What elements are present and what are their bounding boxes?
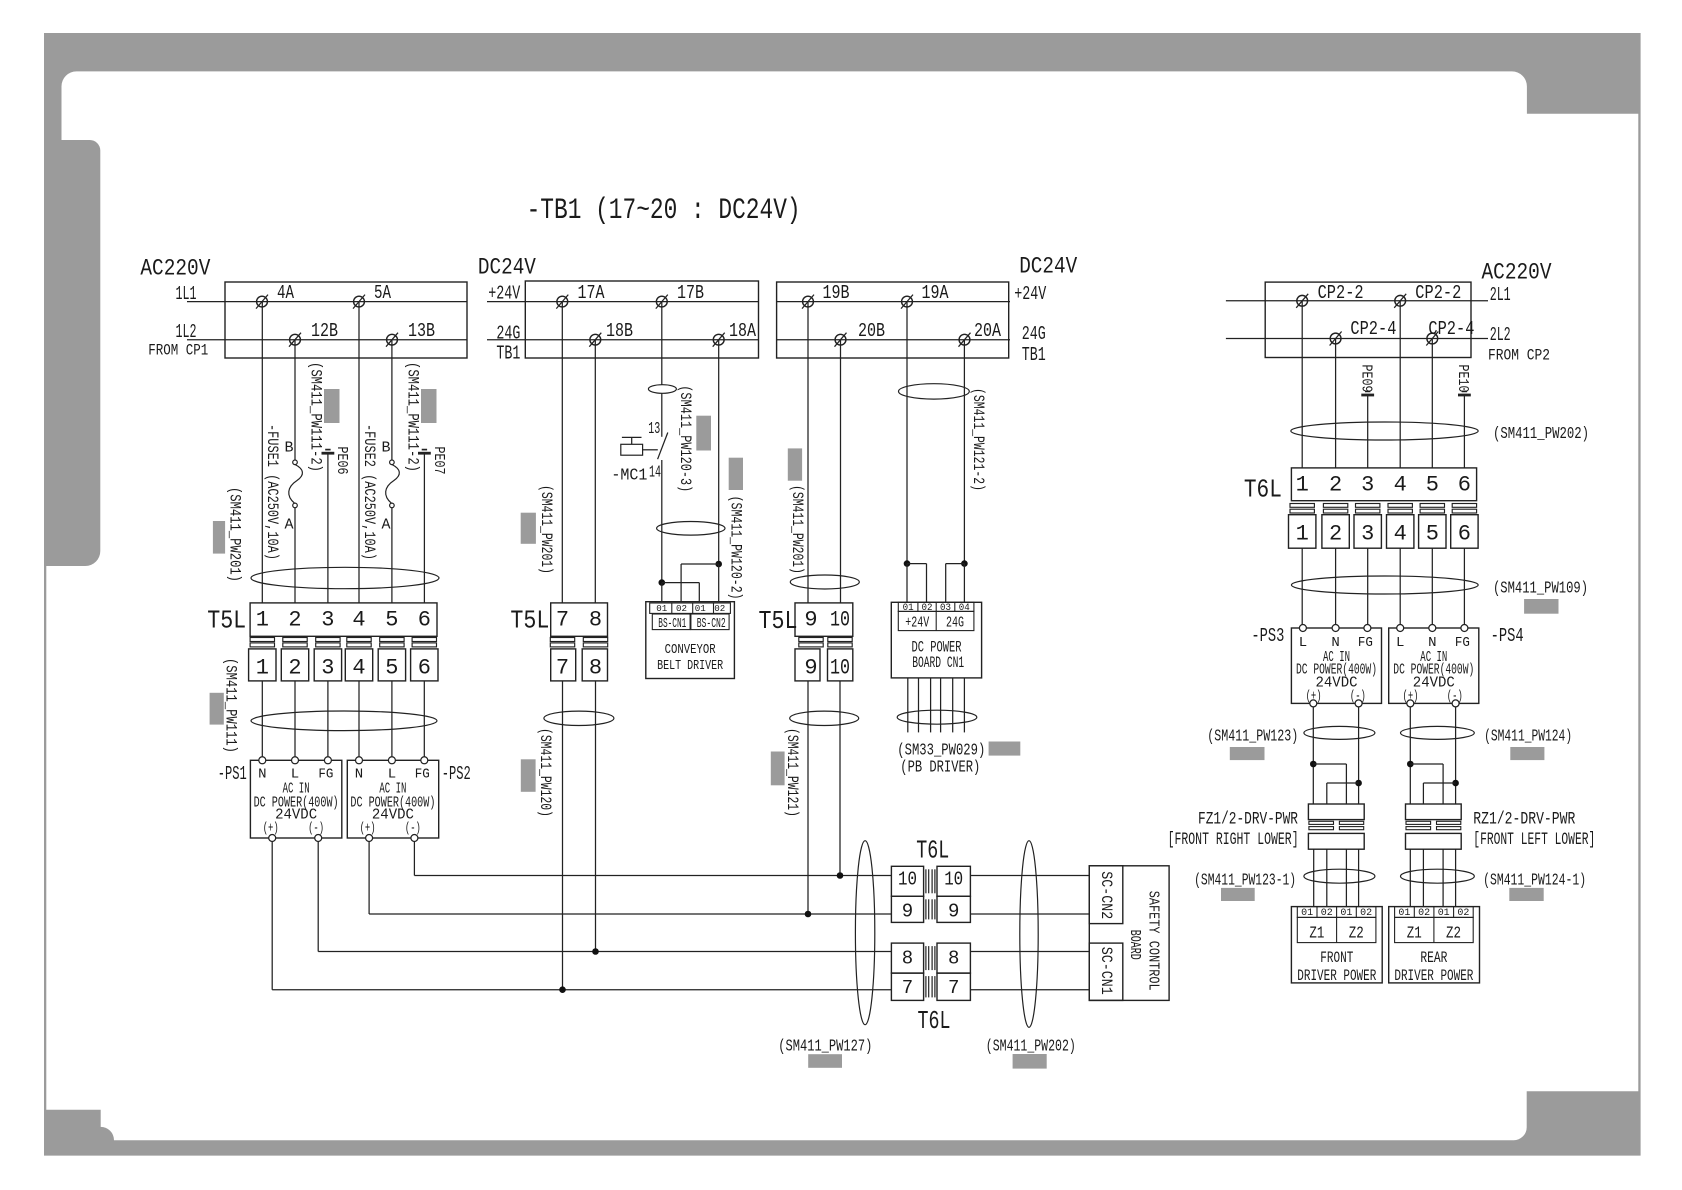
svg-text:CP2-2: CP2-2 [1318, 282, 1364, 304]
svg-text:01: 01 [695, 603, 706, 614]
svg-text:24G: 24G [946, 615, 964, 632]
svg-text:B: B [381, 440, 390, 457]
svg-text:BELT DRIVER: BELT DRIVER [657, 658, 723, 674]
svg-text:Z1: Z1 [1309, 925, 1324, 944]
svg-text:9: 9 [948, 901, 959, 923]
svg-text:14: 14 [649, 464, 661, 483]
svg-text:13: 13 [648, 420, 660, 439]
svg-text:T6L: T6L [918, 1006, 951, 1036]
svg-text:5: 5 [385, 656, 398, 681]
svg-text:L: L [1299, 635, 1307, 651]
svg-text:17A: 17A [578, 282, 605, 304]
svg-text:AC220V: AC220V [1482, 260, 1552, 286]
svg-text:4: 4 [352, 608, 365, 633]
svg-text:2: 2 [1329, 522, 1342, 547]
svg-text:DC24V: DC24V [1019, 254, 1077, 280]
svg-text:-PS1: -PS1 [218, 763, 247, 785]
svg-text:01: 01 [903, 603, 914, 614]
svg-text:PE07: PE07 [430, 447, 447, 475]
svg-text:N: N [258, 767, 266, 783]
svg-text:(SM411_PW109): (SM411_PW109) [1493, 580, 1588, 599]
svg-text:+24V: +24V [488, 283, 520, 305]
svg-text:PE10: PE10 [1454, 365, 1471, 393]
svg-text:3: 3 [321, 608, 334, 633]
svg-text:CP2-4: CP2-4 [1428, 318, 1474, 340]
svg-text:6: 6 [418, 656, 431, 681]
svg-text:5A: 5A [374, 282, 391, 304]
svg-text:-PS4: -PS4 [1491, 625, 1524, 647]
svg-text:4A: 4A [277, 282, 294, 304]
svg-text:CONVEYOR: CONVEYOR [665, 642, 716, 658]
svg-text:(SM411_PW120-3): (SM411_PW120-3) [676, 385, 694, 492]
svg-text:8: 8 [589, 656, 602, 681]
svg-text:8: 8 [902, 948, 913, 970]
svg-text:(SM411_PW201): (SM411_PW201) [788, 485, 806, 574]
svg-text:24G: 24G [1022, 323, 1046, 345]
svg-text:(SM411_PW111): (SM411_PW111) [222, 658, 240, 753]
svg-text:Z2: Z2 [1446, 925, 1461, 944]
svg-text:9: 9 [804, 656, 817, 681]
svg-text:(PB DRIVER): (PB DRIVER) [900, 759, 980, 778]
svg-text:FROM CP1: FROM CP1 [148, 342, 208, 360]
svg-text:BS-CN1: BS-CN1 [658, 616, 686, 632]
svg-text:N: N [355, 767, 363, 783]
svg-text:1: 1 [1296, 522, 1309, 547]
svg-text:T5L: T5L [207, 606, 246, 636]
svg-text:PE06: PE06 [333, 447, 350, 475]
svg-text:17B: 17B [677, 282, 704, 304]
svg-text:(SM411_PW111-2): (SM411_PW111-2) [404, 362, 422, 472]
svg-text:10: 10 [944, 869, 963, 891]
svg-text:SC-CN2: SC-CN2 [1097, 871, 1115, 919]
svg-text:1L1: 1L1 [176, 283, 197, 305]
svg-text:Z1: Z1 [1407, 925, 1422, 944]
svg-text:02: 02 [922, 603, 933, 614]
svg-text:6: 6 [1458, 522, 1471, 547]
svg-text:(-): (-) [308, 821, 324, 837]
svg-text:3: 3 [1361, 522, 1374, 547]
svg-text:04: 04 [959, 603, 970, 614]
svg-text:FROM CP2: FROM CP2 [1488, 347, 1550, 365]
svg-text:AC220V: AC220V [140, 256, 210, 282]
svg-text:BOARD CN1: BOARD CN1 [912, 654, 964, 672]
svg-text:10: 10 [830, 608, 850, 633]
svg-text:(SM411_PW124): (SM411_PW124) [1484, 728, 1572, 747]
svg-text:-PS2: -PS2 [442, 763, 471, 785]
svg-text:7: 7 [556, 656, 569, 681]
svg-text:A: A [381, 517, 390, 534]
svg-text:9: 9 [902, 901, 913, 923]
svg-text:(-): (-) [405, 821, 421, 837]
svg-text:BOARD: BOARD [1126, 930, 1143, 960]
svg-text:20B: 20B [858, 320, 885, 342]
svg-text:[FRONT LEFT LOWER]: [FRONT LEFT LOWER] [1473, 830, 1595, 850]
svg-text:(SM411_PW121-2): (SM411_PW121-2) [969, 388, 987, 491]
svg-text:-FUSE2 (AC250V,10A): -FUSE2 (AC250V,10A) [360, 424, 378, 560]
svg-text:FG: FG [318, 767, 333, 783]
svg-text:2L2: 2L2 [1490, 324, 1511, 346]
svg-text:5: 5 [1426, 473, 1439, 498]
svg-text:(SM411_PW120): (SM411_PW120) [536, 728, 554, 817]
svg-text:Z2: Z2 [1349, 925, 1364, 944]
svg-text:7: 7 [948, 977, 959, 999]
svg-text:A: A [284, 517, 293, 534]
svg-text:03: 03 [940, 603, 951, 614]
svg-text:CP2-4: CP2-4 [1350, 318, 1396, 340]
svg-text:FG: FG [1358, 635, 1373, 651]
svg-text:DRIVER POWER: DRIVER POWER [1297, 967, 1376, 985]
svg-text:8: 8 [948, 948, 959, 970]
svg-text:10: 10 [898, 869, 917, 891]
svg-text:-TB1 (17~20 : DC24V): -TB1 (17~20 : DC24V) [527, 194, 801, 228]
svg-text:20A: 20A [974, 320, 1001, 342]
svg-text:(+): (+) [360, 821, 376, 837]
svg-text:FZ1/2-DRV-PWR: FZ1/2-DRV-PWR [1198, 810, 1298, 830]
svg-text:(SM411_PW111-2): (SM411_PW111-2) [307, 362, 325, 472]
svg-text:1: 1 [1296, 473, 1309, 498]
svg-text:19B: 19B [823, 282, 850, 304]
svg-text:FRONT: FRONT [1320, 949, 1353, 967]
svg-text:12B: 12B [311, 320, 338, 342]
svg-text:-PS3: -PS3 [1251, 625, 1284, 647]
svg-text:2: 2 [288, 656, 301, 681]
svg-text:7: 7 [902, 977, 913, 999]
svg-text:RZ1/2-DRV-PWR: RZ1/2-DRV-PWR [1473, 810, 1575, 830]
svg-text:SAFETY CONTROL: SAFETY CONTROL [1145, 891, 1162, 991]
svg-text:4: 4 [1394, 473, 1407, 498]
svg-text:6: 6 [418, 608, 431, 633]
svg-text:2: 2 [1329, 473, 1342, 498]
svg-text:5: 5 [1426, 522, 1439, 547]
svg-text:8: 8 [589, 608, 602, 633]
svg-text:T5L: T5L [510, 606, 549, 636]
svg-text:(SM411_PW202): (SM411_PW202) [986, 1038, 1076, 1057]
svg-text:24G: 24G [496, 323, 520, 345]
svg-text:19A: 19A [922, 282, 949, 304]
svg-text:18B: 18B [606, 320, 633, 342]
svg-text:(SM411_PW127): (SM411_PW127) [778, 1038, 872, 1057]
svg-text:TB1: TB1 [1022, 344, 1046, 366]
svg-text:SC-CN1: SC-CN1 [1097, 947, 1115, 995]
svg-text:9: 9 [804, 608, 817, 633]
svg-text:3: 3 [1361, 473, 1374, 498]
svg-text:3: 3 [321, 656, 334, 681]
svg-text:+24V: +24V [905, 615, 929, 632]
svg-text:(SM411_PW124-1): (SM411_PW124-1) [1483, 872, 1586, 891]
svg-text:T6L: T6L [916, 836, 949, 866]
svg-text:L: L [1396, 635, 1404, 651]
svg-text:(SM411_PW201): (SM411_PW201) [226, 487, 244, 582]
svg-text:1: 1 [256, 656, 269, 681]
svg-text:10: 10 [830, 656, 850, 681]
svg-text:01: 01 [656, 603, 667, 614]
svg-text:(SM411_PW202): (SM411_PW202) [1493, 425, 1589, 444]
svg-text:(SM411_PW121): (SM411_PW121) [783, 728, 801, 817]
svg-text:TB1: TB1 [496, 343, 520, 365]
svg-text:4: 4 [352, 656, 365, 681]
svg-text:4: 4 [1394, 522, 1407, 547]
svg-text:2: 2 [288, 608, 301, 633]
svg-text:-MC1: -MC1 [611, 467, 647, 486]
svg-text:(SM411_PW120-2): (SM411_PW120-2) [727, 496, 745, 600]
svg-text:DC24V: DC24V [478, 255, 536, 281]
svg-text:B: B [284, 440, 293, 457]
svg-text:+24V: +24V [1014, 283, 1046, 305]
svg-text:2L1: 2L1 [1490, 284, 1511, 306]
svg-text:CP2-2: CP2-2 [1415, 282, 1461, 304]
svg-text:1L2: 1L2 [176, 321, 197, 343]
svg-text:REAR: REAR [1420, 949, 1447, 967]
svg-text:5: 5 [385, 608, 398, 633]
svg-text:T5L: T5L [759, 606, 798, 636]
svg-text:FG: FG [1455, 635, 1470, 651]
svg-text:[FRONT RIGHT LOWER]: [FRONT RIGHT LOWER] [1168, 830, 1299, 850]
svg-text:(+): (+) [263, 821, 279, 837]
svg-text:(SM411_PW123): (SM411_PW123) [1207, 728, 1298, 747]
svg-text:FG: FG [415, 767, 430, 783]
svg-text:(SM411_PW201): (SM411_PW201) [537, 485, 555, 574]
svg-text:(SM411_PW123-1): (SM411_PW123-1) [1194, 872, 1296, 891]
svg-text:18A: 18A [729, 320, 756, 342]
svg-text:T6L: T6L [1244, 475, 1282, 505]
svg-text:-FUSE1 (AC250V,10A): -FUSE1 (AC250V,10A) [263, 424, 281, 560]
svg-text:7: 7 [556, 608, 569, 633]
svg-text:BS-CN2: BS-CN2 [697, 616, 726, 632]
svg-text:6: 6 [1458, 473, 1471, 498]
svg-text:02: 02 [676, 603, 687, 614]
svg-text:13B: 13B [408, 320, 435, 342]
svg-text:DRIVER POWER: DRIVER POWER [1394, 967, 1473, 985]
svg-text:PE09: PE09 [1357, 365, 1374, 393]
svg-text:02: 02 [714, 603, 725, 614]
svg-text:1: 1 [256, 608, 269, 633]
